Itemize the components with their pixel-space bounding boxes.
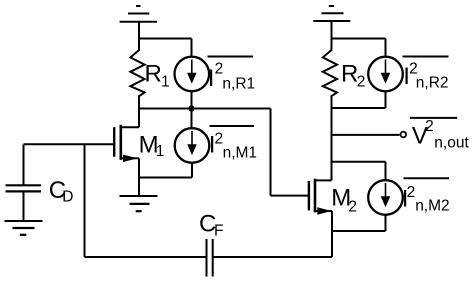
- wire: feedback bottom left segment: [85, 256, 207, 258]
- transistor M1 (NMOS): [114, 125, 139, 162]
- svg-text:n,M2: n,M2: [415, 198, 449, 215]
- wire: node A down to M2 gate: [271, 109, 310, 196]
- capacitor CD: [6, 145, 42, 221]
- output terminal circle: [401, 132, 407, 138]
- wire: R1 bottom to node A: [138, 96, 140, 110]
- label R1: [145, 60, 170, 90]
- svg-text:1: 1: [161, 73, 170, 90]
- wire: M2 source down to feedback wire: [331, 211, 333, 257]
- wire: M1 source down to ground: [138, 158, 140, 196]
- svg-text:n,R1: n,R1: [222, 75, 255, 92]
- current source I2n,R2: [368, 57, 403, 92]
- label I2n,M2 with overbar: [402, 178, 450, 214]
- wire: right supply to R2 top: [331, 21, 333, 48]
- svg-text:n,out: n,out: [434, 135, 469, 152]
- ground under CD: [5, 221, 43, 235]
- wire: node A horizontal (M1 drain to M2 gate run): [139, 108, 271, 110]
- wire: M1 gate from CD node: [24, 143, 115, 145]
- wire: left supply to R1 top: [138, 22, 140, 48]
- label V2n,out with overbar: [410, 118, 470, 152]
- label CD: [49, 177, 74, 205]
- current source I2n,M1: [175, 128, 210, 163]
- supply rail (AC ground symbol) top-left: [120, 6, 157, 22]
- label I2n,R1 with overbar: [208, 57, 256, 93]
- label R2: [341, 61, 365, 91]
- wire: branch to I2n,R1 top: [139, 39, 192, 58]
- wire: feedback bottom right segment: [213, 256, 332, 258]
- svg-text:n,R2: n,R2: [416, 75, 449, 92]
- label I2n,M1 with overbar: [209, 126, 257, 162]
- transistor M2 (NMOS): [309, 179, 332, 215]
- wire: branch to I2n,R2 top: [332, 39, 386, 58]
- svg-text:2: 2: [407, 184, 416, 201]
- label CF: [199, 211, 223, 240]
- svg-text:R: R: [145, 60, 162, 87]
- resistor R2: [323, 47, 337, 97]
- label I2n,R2 with overbar: [403, 57, 449, 92]
- wire: M1 drain vertical: [138, 109, 140, 128]
- wire: I2n,M2 bottom to M2 source: [332, 215, 386, 231]
- svg-text:D: D: [62, 188, 73, 205]
- capacitor CF: [207, 239, 213, 277]
- label M2: [331, 185, 357, 216]
- svg-text:R: R: [341, 61, 358, 88]
- current source I2n,M2: [368, 180, 403, 215]
- label M1: [139, 131, 165, 160]
- svg-text:2: 2: [357, 73, 366, 90]
- wire: I2n,M2 top branch: [332, 162, 386, 181]
- resistor R1: [130, 47, 144, 97]
- wire: I2n,M1 bottom to M1 source: [139, 163, 192, 178]
- wire: output tap: [332, 134, 400, 136]
- svg-text:I: I: [208, 65, 215, 92]
- svg-text:2: 2: [425, 118, 434, 135]
- ground under M1 source: [120, 196, 158, 211]
- wire: I2n,R1 bottom to node A: [191, 91, 193, 108]
- supply rail (AC ground symbol) top-right: [313, 6, 350, 21]
- wire: R2 bottom / M2 drain vertical: [331, 96, 333, 180]
- svg-text:2: 2: [348, 199, 357, 216]
- current source I2n,R1: [175, 57, 210, 92]
- wire: I2n,M1 top to node A: [191, 109, 193, 129]
- wire: I2n,R2 bottom to R2 bottom node: [332, 91, 386, 108]
- junction node A: [188, 105, 194, 111]
- svg-text:1: 1: [156, 143, 165, 160]
- svg-text:F: F: [214, 223, 223, 240]
- wire: input node down to feedback wire: [84, 145, 86, 258]
- svg-text:n,M1: n,M1: [223, 145, 257, 162]
